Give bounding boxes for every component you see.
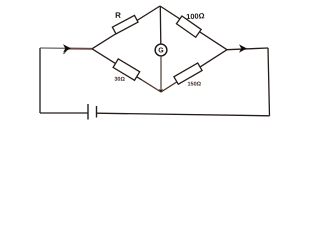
wire left vertical bbox=[39, 48, 41, 113]
node bottom junction bbox=[159, 89, 164, 93]
svg-text:100Ω: 100Ω bbox=[186, 11, 205, 21]
resistor 100ohm bbox=[176, 16, 201, 37]
resistor R bbox=[112, 15, 138, 33]
wire arm bottom-left bbox=[92, 49, 142, 80]
wire galvanometer top stem bbox=[159, 6, 162, 44]
resistor 30ohm bbox=[113, 59, 140, 80]
wire left horizontal bbox=[40, 47, 67, 49]
wire arm bottom-left lower segment bbox=[142, 80, 161, 92]
current arrow right bbox=[240, 45, 246, 51]
svg-text:150Ω: 150Ω bbox=[187, 81, 201, 87]
wire bottom left bbox=[40, 112, 88, 114]
wire arm bottom-right upper segment bbox=[176, 50, 227, 83]
svg-text:R: R bbox=[115, 11, 121, 20]
wire arm top-left bbox=[92, 6, 160, 49]
resistor 150ohm bbox=[174, 63, 202, 84]
galvanometer G bbox=[155, 44, 167, 56]
wire left horizontal brown segment bbox=[66, 48, 92, 50]
wire right vertical bbox=[268, 48, 270, 116]
battery B1 bbox=[88, 104, 97, 120]
wire arm bottom-right bbox=[161, 82, 176, 92]
current arrow left bbox=[64, 45, 70, 51]
wire galvanometer bottom stem bbox=[160, 56, 162, 92]
wire arm top-right bbox=[160, 6, 227, 50]
svg-text:G: G bbox=[158, 47, 164, 54]
wire right horizontal bbox=[227, 48, 268, 50]
svg-text:30Ω: 30Ω bbox=[114, 77, 125, 83]
wire bottom right bbox=[97, 113, 270, 116]
